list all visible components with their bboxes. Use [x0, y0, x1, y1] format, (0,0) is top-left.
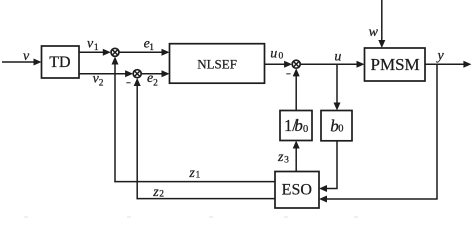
wire y feedback to ESO [319, 64, 438, 202]
label minus at S2 [126, 82, 130, 84]
faint caption remnants at bottom edge [24, 216, 358, 218]
svg-text:z: z [152, 185, 159, 200]
label e2 [147, 71, 158, 89]
wire ESO to 1/b0 (z3) [293, 141, 300, 172]
svg-text:1: 1 [94, 43, 99, 53]
svg-text:2: 2 [153, 79, 158, 89]
svg-text:u: u [270, 46, 277, 61]
svg-text:TD: TD [49, 54, 70, 71]
svg-text:0: 0 [279, 52, 284, 62]
summing junction S1 [111, 48, 119, 56]
block NLSEF [170, 44, 265, 83]
svg-text:3: 3 [284, 156, 289, 166]
wire z2 feedback to S2 [134, 78, 275, 199]
wire y output [425, 61, 471, 68]
svg-text:1: 1 [196, 170, 201, 180]
svg-text:2: 2 [159, 189, 164, 199]
label u0 [270, 46, 283, 61]
wire w input [378, 0, 385, 48]
wire u branch to b0 [334, 64, 341, 110]
wire u [300, 61, 364, 68]
label v2 [93, 72, 104, 89]
wire b0 to ESO [319, 141, 338, 192]
summing junction S2 [133, 70, 141, 78]
svg-text:y: y [436, 48, 445, 63]
svg-text:ESO: ESO [282, 182, 312, 199]
label z2 [152, 185, 164, 200]
wire e1 [119, 49, 169, 56]
block ESO [275, 172, 319, 209]
label z3 [277, 150, 289, 165]
svg-text:v: v [23, 49, 30, 64]
svg-text:u: u [334, 50, 341, 65]
block b0 [321, 111, 352, 141]
label e1 [144, 37, 155, 54]
svg-text:z: z [188, 166, 195, 181]
svg-text:z: z [277, 150, 284, 165]
block TD [42, 46, 80, 78]
svg-text:b: b [294, 116, 303, 135]
svg-text:0: 0 [338, 124, 343, 135]
wire v input [2, 59, 42, 66]
wire u0 [265, 61, 293, 68]
block PMSM [365, 48, 426, 81]
wire v1 [79, 49, 111, 56]
block 1/b0 [280, 111, 312, 141]
svg-text:PMSM: PMSM [371, 55, 420, 74]
svg-text:w: w [369, 25, 379, 40]
wire e2 [141, 70, 169, 77]
label v1 [87, 37, 99, 54]
summing junction S3 [292, 60, 300, 68]
wire v2 [79, 70, 133, 77]
svg-text:NLSEF: NLSEF [197, 56, 237, 71]
label z1 [188, 166, 200, 181]
wire z1 feedback to S1 [112, 57, 275, 183]
wire 1/b0 to S3 [293, 68, 300, 110]
svg-text:2: 2 [99, 79, 104, 89]
svg-text:0: 0 [303, 124, 308, 135]
svg-text:1: 1 [149, 43, 154, 53]
label minus at S3 [286, 73, 290, 75]
